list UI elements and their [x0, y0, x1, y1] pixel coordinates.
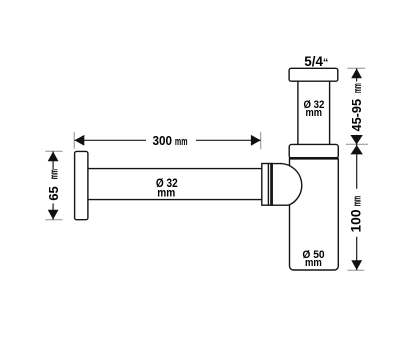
svg-text:65: 65	[46, 186, 61, 201]
dim line 100mm upper segment	[356, 144, 358, 188]
wall flange	[75, 151, 88, 219]
svg-text:300: 300	[153, 133, 173, 148]
label 100 mm rotated	[348, 196, 363, 233]
vertical pipe right line	[329, 81, 331, 144]
dim line 65mm lower segment	[52, 204, 54, 220]
nut inner line	[267, 164, 269, 206]
arrow 65mm up	[48, 152, 59, 162]
svg-text:mm: mm	[352, 196, 364, 207]
arrows (filled)	[48, 69, 363, 271]
dimension lines (dark)	[53, 68, 357, 270]
svg-text:mm: mm	[352, 83, 364, 93]
label 65 mm rotated	[46, 169, 61, 201]
nut dark band	[270, 164, 272, 206]
collar bottom band	[289, 157, 339, 160]
dim line 65mm upper segment	[52, 151, 54, 169]
tick 45-95 top	[347, 67, 365, 69]
arrow 100mm up	[351, 145, 363, 154]
top flange	[289, 68, 338, 81]
svg-text:mm: mm	[157, 187, 175, 199]
svg-text:100: 100	[348, 210, 363, 233]
arrow 300mm left	[75, 135, 85, 146]
svg-text:45-95: 45-95	[349, 99, 364, 132]
elbow bulge	[272, 164, 302, 206]
arrow 65mm down	[48, 210, 59, 220]
svg-text:mm: mm	[306, 107, 323, 119]
svg-text:mm: mm	[175, 136, 188, 148]
dim line 300mm left segment	[75, 139, 147, 141]
dimension ticks (gray)	[45, 68, 368, 270]
tick 300mm right	[260, 132, 262, 149]
label 45-95 mm rotated	[349, 83, 364, 131]
svg-text:mm: mm	[49, 169, 61, 179]
dim line 45-95 upper segment	[356, 68, 358, 81]
dim line 45-95 lower segment	[356, 135, 358, 145]
wire horizontal pipe bottom line	[88, 199, 263, 201]
tick bottom 100mm	[347, 269, 364, 271]
svg-text:mm: mm	[305, 257, 322, 269]
trap body cylinder	[290, 159, 339, 271]
arrow 45-95 up	[351, 69, 362, 79]
vertical pipe left line	[297, 81, 299, 144]
arrow 100mm down	[351, 260, 362, 270]
dim line 300mm right segment	[196, 139, 261, 141]
arrow 300mm right	[251, 135, 261, 146]
tick 65mm top	[45, 150, 62, 152]
tick 300mm left	[73, 132, 75, 149]
compression nut	[262, 164, 272, 206]
arrow 45-95 down	[350, 135, 362, 145]
tick 65mm bottom	[45, 219, 62, 221]
dim line 100mm lower segment	[356, 237, 358, 271]
wire horizontal pipe top line	[88, 168, 263, 170]
collar nut	[289, 144, 338, 158]
tick middle shared	[346, 143, 368, 145]
svg-text:5/4“: 5/4“	[304, 54, 328, 69]
